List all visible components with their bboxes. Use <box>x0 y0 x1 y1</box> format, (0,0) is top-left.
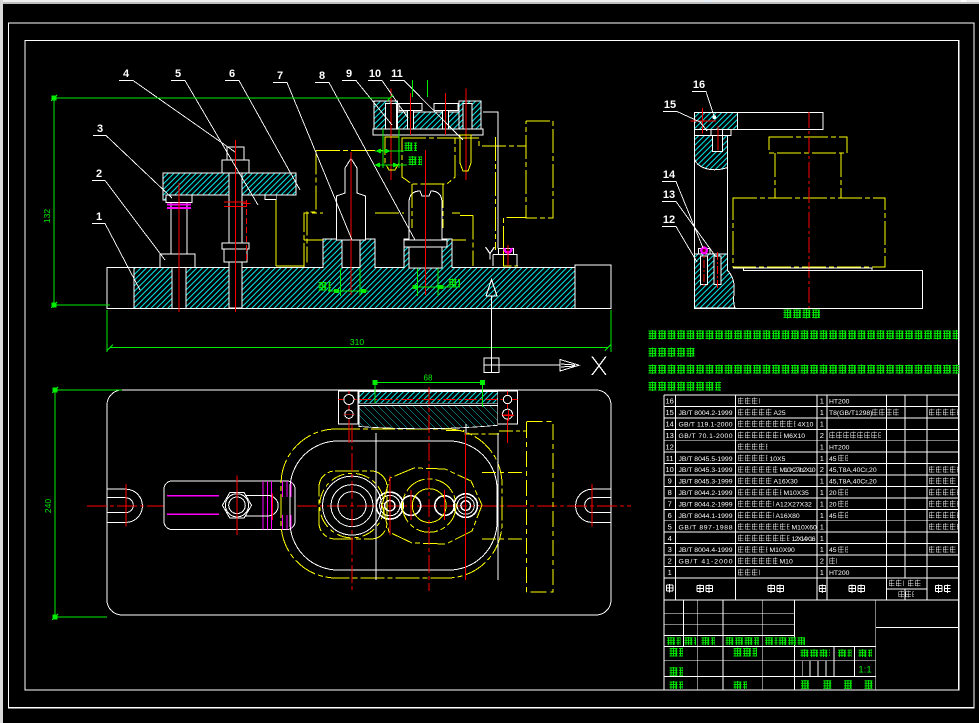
svg-text:16: 16 <box>666 397 674 406</box>
svg-text:5: 5 <box>175 68 181 80</box>
green 张 <box>823 680 832 689</box>
svg-text:JB/T 8045.5-1999: JB/T 8045.5-1999 <box>679 456 733 463</box>
clamp short white verticals <box>465 424 467 434</box>
svg-text:1: 1 <box>820 477 824 486</box>
svg-text:11: 11 <box>391 68 403 80</box>
bolt lower nut <box>224 249 247 262</box>
leader callout 9 <box>342 81 392 126</box>
hinge pin circle <box>712 115 716 119</box>
plate divider lines <box>358 391 498 424</box>
left plate circles <box>344 395 354 405</box>
circle C3 <box>435 496 455 516</box>
plan base plate rounded rect <box>107 390 611 615</box>
svg-text:HT200: HT200 <box>829 444 850 451</box>
svg-text:M10X90: M10X90 <box>770 547 796 554</box>
circle C2 <box>401 496 421 516</box>
svg-text:1: 1 <box>96 211 102 223</box>
green bottom ext <box>54 304 110 306</box>
hex nut plan <box>222 493 251 518</box>
pin8 centerline <box>425 150 427 295</box>
svg-text:4: 4 <box>668 534 672 543</box>
yellow workpiece top rect <box>769 137 847 153</box>
svg-text:45,T8A,40Cr,20: 45,T8A,40Cr,20 <box>829 479 877 486</box>
leader callout 3 <box>93 136 172 199</box>
clamp magenta lines <box>167 496 219 515</box>
svg-text:3: 3 <box>97 123 103 135</box>
svg-text:11: 11 <box>666 454 674 463</box>
svg-text:1: 1 <box>820 397 824 406</box>
svg-text:20: 20 <box>829 502 837 509</box>
svg-text:GB/T 119.1-2000: GB/T 119.1-2000 <box>679 422 733 429</box>
projection verticals <box>376 433 498 580</box>
svg-text:2: 2 <box>820 465 824 474</box>
svg-text:7: 7 <box>277 70 283 82</box>
tech requirements paragraph line 1 <box>648 330 958 340</box>
right notch red cross <box>591 484 593 527</box>
yellow neck lines <box>775 153 841 198</box>
green label 签名 <box>765 637 778 645</box>
clamp arm (part 6) hatched <box>163 173 296 200</box>
svg-text:8: 8 <box>668 488 672 497</box>
green dim blob right <box>448 279 460 288</box>
pin7 centerline <box>350 152 352 295</box>
leader callout 16 <box>692 92 714 117</box>
svg-text:4X10: 4X10 <box>798 422 814 429</box>
green clamp dim blob 2 <box>408 156 422 166</box>
svg-text:15: 15 <box>664 99 676 111</box>
svg-text:JB/T 8044.1-1999: JB/T 8044.1-1999 <box>679 513 733 520</box>
svg-text:JB/T 8044.2-1999: JB/T 8044.2-1999 <box>679 502 733 509</box>
green label 设计 <box>669 648 683 657</box>
clamp magenta verticals <box>263 481 291 530</box>
hinge seat hatched bar part (part 16) <box>694 113 737 130</box>
leader callout 12 <box>662 227 697 263</box>
svg-text:M6X10: M6X10 <box>784 433 806 440</box>
top clamp right hatched block <box>459 101 481 129</box>
svg-text:A16X80: A16X80 <box>776 513 800 520</box>
baseplate (part 1) hatched body <box>134 239 575 308</box>
svg-text:HT200: HT200 <box>829 399 850 406</box>
BOM grid verticals <box>664 395 959 600</box>
yellow slot left screw <box>385 137 399 170</box>
svg-text:12: 12 <box>663 214 675 226</box>
green label 重量 <box>838 649 852 657</box>
svg-text:A12X27X32: A12X27X32 <box>776 502 813 509</box>
yellow workpiece big rect <box>733 198 885 267</box>
leader callout 13 <box>662 202 716 258</box>
svg-text:9: 9 <box>346 68 352 80</box>
locator pin (part 8) dome <box>409 191 442 240</box>
svg-text:13: 13 <box>666 431 674 440</box>
green clamp dim blob 1 <box>404 142 417 151</box>
svg-text:1: 1 <box>820 488 824 497</box>
left notch red cross <box>125 484 127 527</box>
green vertical dim 240 <box>52 387 122 620</box>
svg-text:M10X60: M10X60 <box>792 524 818 531</box>
screw 10 stem <box>407 111 413 129</box>
yellow jog to bar <box>446 431 527 434</box>
leader callout 2 <box>92 181 165 261</box>
leader callout 4 <box>119 81 235 153</box>
main horizontal centerline <box>87 505 631 507</box>
svg-text:JB/T 8044.2-1999: JB/T 8044.2-1999 <box>679 490 733 497</box>
leader callout 14 <box>662 182 703 249</box>
leader callout 6 <box>225 81 300 191</box>
svg-text:1: 1 <box>820 442 824 451</box>
svg-text:13: 13 <box>663 189 675 201</box>
svg-text:9: 9 <box>668 477 672 486</box>
yellow workpiece left wall solid <box>276 200 304 267</box>
svg-text:45: 45 <box>829 547 837 554</box>
header labels <box>666 584 675 593</box>
svg-text:1: 1 <box>820 500 824 509</box>
svg-text:JB/T 8004.2-1999: JB/T 8004.2-1999 <box>679 410 733 417</box>
section arrow Y axis <box>486 280 497 359</box>
circle C1 <box>376 492 403 519</box>
svg-text:240: 240 <box>43 499 53 513</box>
svg-text:JB/T 8004.4-1999: JB/T 8004.4-1999 <box>679 547 733 554</box>
red hidden line near bolt <box>246 200 248 261</box>
magenta step white outline <box>698 248 710 254</box>
svg-text:8: 8 <box>319 70 325 82</box>
top clamp plan lower hatch band curved <box>359 406 498 429</box>
stud centerline <box>178 183 180 312</box>
right plate circles <box>503 395 511 403</box>
tech requirements paragraph line 4 <box>648 382 721 392</box>
green 张2 <box>864 680 873 689</box>
svg-text:45: 45 <box>829 456 837 463</box>
header row split and bottom <box>664 589 959 600</box>
stud nut (part 2) <box>160 254 195 268</box>
hinge column <box>694 113 727 309</box>
green 310 dim <box>107 310 611 352</box>
green top dim line <box>54 95 393 101</box>
svg-text:M10X35: M10X35 <box>784 490 810 497</box>
leader callout 5 <box>171 81 258 206</box>
top clamp base plate <box>373 129 483 135</box>
top clamp middle hatched bar <box>398 112 459 129</box>
svg-text:2: 2 <box>820 431 824 440</box>
svg-text:5: 5 <box>668 522 672 531</box>
big bolt circles <box>323 476 382 535</box>
yellow circles center <box>403 479 456 532</box>
window chrome top bar <box>0 0 979 2</box>
bolt through right block <box>463 103 472 129</box>
svg-text:JB/T 8045.3-1999: JB/T 8045.3-1999 <box>679 479 733 486</box>
yellow circle around big bolt <box>320 473 385 538</box>
svg-text:GB/T 70.1-2000: GB/T 70.1-2000 <box>679 433 733 440</box>
hinge red crosses <box>691 108 718 151</box>
green label 更改文件号 <box>725 637 759 645</box>
lower hatched block (part 12) <box>694 254 735 308</box>
svg-text:16: 16 <box>693 79 705 91</box>
hinge hatched block with arc <box>694 136 727 170</box>
svg-text:14: 14 <box>666 420 674 429</box>
top clamp plan outer rect <box>338 391 517 424</box>
svg-text:1: 1 <box>820 420 824 429</box>
green label 标准化 <box>733 648 757 657</box>
green corner squares <box>52 96 57 101</box>
svg-text:1: 1 <box>820 454 824 463</box>
svg-text:6: 6 <box>668 511 672 520</box>
yellow workpiece left staircase <box>307 151 385 263</box>
right bracket white <box>483 112 517 266</box>
yellow racetrack <box>281 429 502 578</box>
svg-text:JB/T 8045.3-1999: JB/T 8045.3-1999 <box>679 467 733 474</box>
slot centerlines <box>704 246 717 288</box>
title block grid <box>664 600 959 690</box>
green label 工艺 <box>669 681 683 689</box>
bracket magenta dot <box>505 248 512 253</box>
yellow boss outlines <box>304 213 518 267</box>
svg-text:T8(GB/T1298): T8(GB/T1298) <box>829 410 872 417</box>
screw 2 head <box>434 103 458 110</box>
screw slots in lower block <box>701 256 708 285</box>
locator pin (part 7) <box>337 159 366 241</box>
yellow workpiece right profile <box>455 121 553 250</box>
green dim blob left <box>318 282 331 291</box>
right slot notch <box>576 489 611 522</box>
arm pressure pad <box>265 195 276 200</box>
yellow phantom horizontals to bar <box>482 473 527 539</box>
pin8 washer <box>404 240 447 247</box>
green dim 68 <box>375 382 482 407</box>
green label 处数 <box>684 637 696 645</box>
svg-text:GB/T 41-2000: GB/T 41-2000 <box>679 559 733 566</box>
magenta ring right view <box>701 248 707 254</box>
svg-text:1: 1 <box>820 568 824 577</box>
svg-text:68: 68 <box>424 374 433 383</box>
svg-text:2: 2 <box>820 557 824 566</box>
svg-text:1: 1 <box>820 408 824 417</box>
svg-text:3: 3 <box>668 545 672 554</box>
green label 审核 <box>669 667 683 676</box>
svg-text:1:1: 1:1 <box>858 665 871 676</box>
svg-text:132: 132 <box>42 209 52 223</box>
stud upper washer <box>166 195 192 203</box>
svg-text:2: 2 <box>96 168 102 180</box>
clamp slot <box>245 496 278 516</box>
green vertical dim 132 <box>51 95 57 308</box>
svg-text:M10X27/b2X10: M10X27/b2X10 <box>780 467 816 474</box>
svg-text:A16X30: A16X30 <box>774 479 798 486</box>
green 共 <box>801 680 810 689</box>
yellow workpiece cup <box>402 138 455 184</box>
svg-text:310: 310 <box>350 337 364 347</box>
bolt washer <box>222 243 249 249</box>
svg-text:1: 1 <box>668 568 672 577</box>
svg-text:12: 12 <box>666 442 674 451</box>
svg-text:6: 6 <box>229 68 235 80</box>
pin8 lower <box>409 247 442 268</box>
right view workpiece centerline <box>425 150 427 188</box>
svg-text:45,T8A,40Cr,20: 45,T8A,40Cr,20 <box>829 467 877 474</box>
green label 比例 <box>858 649 872 657</box>
bolt through left block <box>385 103 396 129</box>
svg-text:10: 10 <box>369 68 381 80</box>
tech req title <box>783 309 821 319</box>
yellow pin (part 11) <box>460 135 471 171</box>
green small dim left pin <box>328 269 369 296</box>
svg-text:1: 1 <box>820 522 824 531</box>
red main centerline <box>808 112 810 308</box>
svg-text:14: 14 <box>663 169 676 181</box>
leader callout 15 <box>663 112 707 132</box>
right yellow bar <box>527 421 553 592</box>
svg-text:2: 2 <box>668 557 672 566</box>
leader callout 11 <box>390 81 463 141</box>
left slot notch <box>107 489 142 522</box>
circle C4 <box>454 494 478 518</box>
svg-text:1.2X14X16: 1.2X14X16 <box>792 536 816 543</box>
top bar <box>694 113 823 130</box>
bolt top nut (part 4) <box>222 160 249 173</box>
stud lower shank in plate <box>172 268 186 309</box>
green label 阶段标记 <box>800 649 830 657</box>
svg-text:4: 4 <box>123 68 130 80</box>
clamp plan red axis <box>338 399 517 401</box>
bolt thread marks red <box>224 202 247 207</box>
white racetrack <box>290 441 497 570</box>
bolt (part 5) top cap <box>227 147 244 160</box>
hinge screw slot <box>713 136 723 152</box>
svg-text:45: 45 <box>829 513 837 520</box>
nut centerline red <box>237 476 273 535</box>
baseplate left step <box>107 268 134 309</box>
UCS box <box>484 358 499 373</box>
green label 标记 <box>667 637 681 645</box>
screw 2 stem <box>443 111 449 129</box>
yellow cup walls <box>412 184 443 228</box>
green 第 <box>843 680 852 689</box>
svg-text:20: 20 <box>829 490 837 497</box>
svg-text:M10: M10 <box>780 559 793 566</box>
green label 分区 <box>701 637 715 645</box>
bracket red tick <box>507 245 509 266</box>
bolt centerline <box>235 140 237 312</box>
base outline <box>694 268 922 309</box>
green label 年月日 <box>778 637 805 645</box>
svg-text:15: 15 <box>666 408 674 417</box>
svg-text:1: 1 <box>820 534 824 543</box>
tech requirements paragraph line 2 <box>648 348 695 358</box>
screw 10 head <box>399 103 422 110</box>
green ext verticals above screws <box>413 80 428 97</box>
baseplate right step <box>575 265 611 308</box>
yellow square around big circles <box>319 471 387 539</box>
green small dim right pin <box>412 269 459 296</box>
svg-text:GB/T 897-1988: GB/T 897-1988 <box>679 524 733 531</box>
BOM grid horizontals <box>664 395 959 578</box>
leader callout 10 <box>368 81 408 119</box>
svg-text:A25: A25 <box>774 410 786 417</box>
top clamp left hatched block (part 9) <box>374 101 398 129</box>
svg-text:1: 1 <box>820 545 824 554</box>
plan clamp arm <box>164 481 295 530</box>
magenta rings on stud <box>167 205 191 209</box>
yellow blob outline <box>382 468 482 544</box>
bolt lower shank <box>229 262 242 308</box>
UCS X axis <box>499 360 579 372</box>
svg-text:1: 1 <box>820 511 824 520</box>
green label 批准 <box>733 681 747 689</box>
svg-text:10: 10 <box>666 465 674 474</box>
red verticals plan <box>352 387 429 591</box>
window chrome left bar <box>0 0 3 723</box>
leader callout 1 <box>92 224 140 291</box>
bolt shaft <box>229 173 242 243</box>
svg-text:7: 7 <box>668 500 672 509</box>
stud (part 3) body <box>171 203 187 255</box>
nut circles <box>225 494 248 517</box>
tech requirements paragraph line 3 <box>648 365 959 375</box>
top clamp plan upper hatch band <box>359 392 498 404</box>
hinge white row <box>694 129 731 135</box>
X label <box>592 357 606 376</box>
green clamp dims <box>374 129 407 168</box>
Y label <box>486 247 495 260</box>
leader callout 8 <box>315 83 415 241</box>
pin7 lower <box>342 240 360 268</box>
leader callout 7 <box>273 83 352 241</box>
svg-text:10X5: 10X5 <box>770 456 786 463</box>
red centerlines top clamp <box>391 89 466 180</box>
svg-text:HT200: HT200 <box>829 570 850 577</box>
